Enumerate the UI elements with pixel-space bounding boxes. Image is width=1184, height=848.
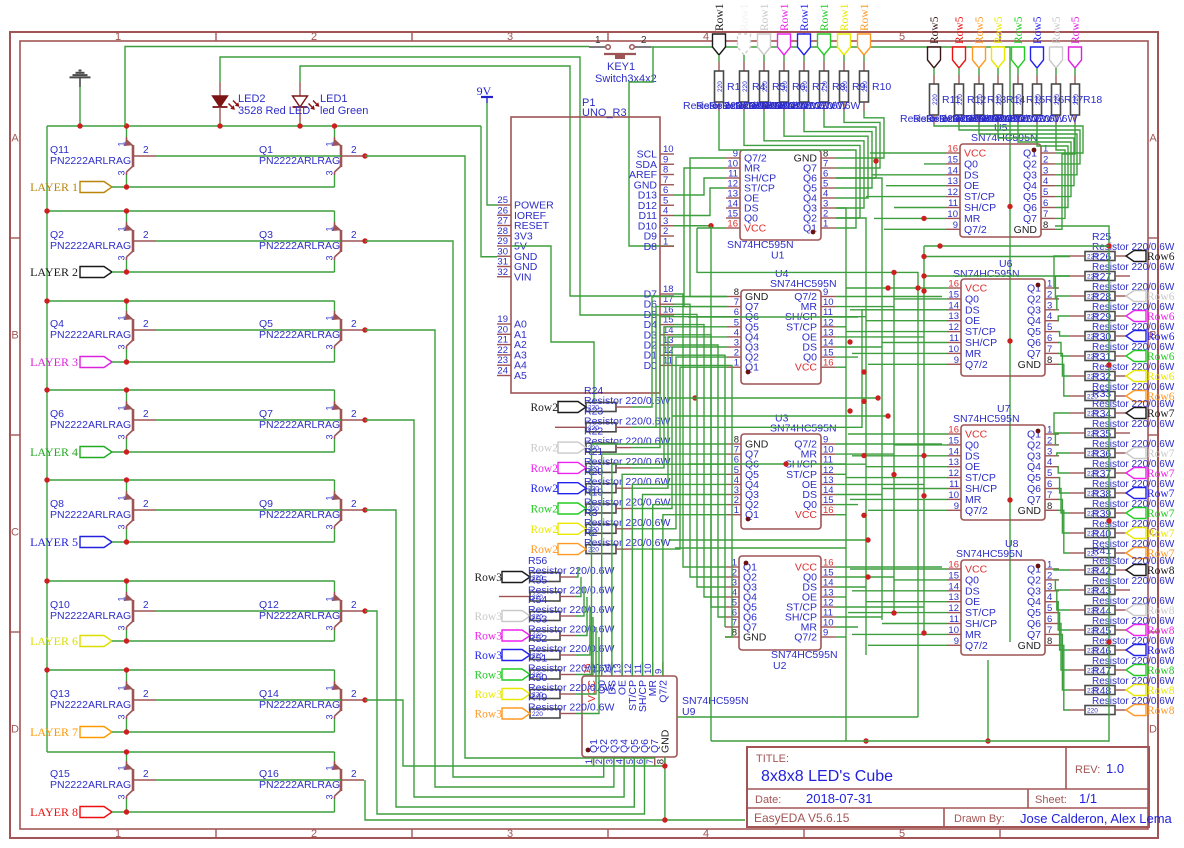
- svg-text:REV:: REV:: [1075, 764, 1100, 776]
- svg-text:1.0: 1.0: [1106, 761, 1124, 776]
- svg-text:220: 220: [762, 81, 769, 92]
- svg-text:VCC: VCC: [795, 362, 818, 374]
- svg-text:3: 3: [117, 170, 127, 175]
- svg-text:U9: U9: [682, 706, 696, 718]
- svg-text:PN2222ARLRAG: PN2222ARLRAG: [50, 779, 131, 791]
- svg-text:Row3: Row3: [475, 611, 503, 623]
- svg-text:8: 8: [1047, 636, 1052, 647]
- svg-text:12: 12: [947, 187, 958, 198]
- svg-text:VIN: VIN: [514, 271, 532, 283]
- svg-text:220: 220: [842, 81, 849, 92]
- svg-text:1: 1: [325, 226, 335, 231]
- svg-text:LAYER 2: LAYER 2: [30, 265, 78, 279]
- svg-text:Q7/2: Q7/2: [965, 640, 988, 652]
- svg-text:PN2222ARLRAG: PN2222ARLRAG: [50, 240, 131, 252]
- svg-text:PN2222ARLRAG: PN2222ARLRAG: [259, 240, 340, 252]
- svg-text:GND: GND: [1018, 640, 1042, 652]
- svg-text:2: 2: [351, 769, 357, 780]
- svg-text:Row2: Row2: [531, 483, 559, 495]
- svg-text:3528 Red LED: 3528 Red LED: [238, 105, 310, 117]
- svg-text:PN2222ARLRAG: PN2222ARLRAG: [259, 610, 340, 622]
- svg-text:Row3: Row3: [475, 572, 503, 584]
- svg-text:Row3: Row3: [475, 650, 503, 662]
- svg-text:9: 9: [823, 628, 828, 639]
- svg-text:PN2222ARLRAG: PN2222ARLRAG: [50, 610, 131, 622]
- svg-text:3: 3: [325, 625, 335, 630]
- svg-text:7: 7: [1047, 625, 1052, 636]
- svg-text:2: 2: [351, 409, 357, 420]
- svg-text:VCC: VCC: [744, 223, 767, 235]
- svg-text:PN2222ARLRAG: PN2222ARLRAG: [50, 509, 131, 521]
- svg-text:A: A: [1149, 133, 1157, 145]
- svg-text:Q7/2: Q7/2: [657, 680, 669, 703]
- svg-text:Row1: Row1: [819, 3, 831, 31]
- svg-text:1: 1: [117, 405, 127, 410]
- svg-text:PN2222ARLRAG: PN2222ARLRAG: [50, 329, 131, 341]
- svg-text:U2: U2: [773, 660, 787, 672]
- svg-text:1: 1: [117, 685, 127, 690]
- svg-text:Sheet:: Sheet:: [1035, 794, 1067, 806]
- svg-text:Row2: Row2: [531, 443, 559, 455]
- svg-text:220: 220: [742, 81, 749, 92]
- svg-text:PN2222ARLRAG: PN2222ARLRAG: [50, 699, 131, 711]
- svg-text:2: 2: [641, 35, 647, 46]
- svg-text:U1: U1: [771, 250, 785, 262]
- svg-text:2: 2: [143, 319, 149, 330]
- svg-text:3: 3: [117, 625, 127, 630]
- svg-text:12: 12: [948, 603, 959, 614]
- svg-text:PN2222ARLRAG: PN2222ARLRAG: [259, 419, 340, 431]
- svg-text:Row1: Row1: [839, 3, 851, 31]
- svg-text:Q7/2: Q7/2: [794, 632, 817, 644]
- svg-text:2: 2: [1047, 570, 1052, 581]
- svg-text:Jose Calderon, Alex Lema: Jose Calderon, Alex Lema: [1020, 811, 1173, 826]
- svg-text:LAYER 1: LAYER 1: [30, 180, 78, 194]
- svg-text:1: 1: [734, 505, 739, 516]
- svg-text:1: 1: [117, 315, 127, 320]
- svg-text:Row3: Row3: [475, 670, 503, 682]
- svg-text:1: 1: [325, 596, 335, 601]
- svg-text:14: 14: [948, 300, 959, 311]
- svg-text:3: 3: [325, 794, 335, 799]
- svg-text:9: 9: [954, 636, 959, 647]
- svg-text:3: 3: [507, 828, 513, 840]
- svg-text:2: 2: [143, 769, 149, 780]
- svg-text:16: 16: [948, 425, 959, 436]
- svg-text:5: 5: [1047, 603, 1052, 614]
- svg-text:1: 1: [1043, 144, 1048, 155]
- svg-text:220: 220: [782, 81, 789, 92]
- svg-text:3: 3: [1047, 446, 1052, 457]
- svg-text:8: 8: [1047, 501, 1052, 512]
- svg-text:13: 13: [947, 176, 958, 187]
- svg-text:2: 2: [351, 600, 357, 611]
- svg-text:1: 1: [115, 31, 121, 43]
- svg-text:U4: U4: [775, 268, 789, 280]
- svg-text:Row5: Row5: [1070, 16, 1082, 44]
- svg-text:LAYER 4: LAYER 4: [30, 445, 78, 459]
- svg-text:220: 220: [1035, 94, 1042, 105]
- svg-text:10: 10: [948, 490, 959, 501]
- svg-text:220: 220: [1087, 708, 1098, 715]
- svg-text:1: 1: [1047, 425, 1052, 436]
- svg-text:1: 1: [325, 495, 335, 500]
- svg-text:220: 220: [1054, 94, 1061, 105]
- svg-text:3: 3: [117, 794, 127, 799]
- svg-text:8x8x8 LED's Cube: 8x8x8 LED's Cube: [761, 768, 893, 785]
- svg-text:1: 1: [117, 596, 127, 601]
- svg-text:16: 16: [948, 279, 959, 290]
- svg-text:220: 220: [822, 81, 829, 92]
- svg-text:3: 3: [325, 344, 335, 349]
- svg-text:220: 220: [862, 81, 869, 92]
- svg-text:Q7/2: Q7/2: [964, 224, 987, 236]
- svg-text:8: 8: [1047, 355, 1052, 366]
- svg-text:1/1: 1/1: [1079, 791, 1097, 806]
- svg-text:2: 2: [143, 499, 149, 510]
- svg-text:9: 9: [954, 355, 959, 366]
- svg-text:Q7/2: Q7/2: [965, 505, 988, 517]
- svg-text:Row8: Row8: [1147, 705, 1175, 717]
- svg-text:6: 6: [1047, 614, 1052, 625]
- svg-text:5: 5: [1043, 187, 1048, 198]
- svg-text:D0: D0: [644, 360, 658, 372]
- svg-text:Date:: Date:: [755, 794, 781, 806]
- svg-text:PN2222ARLRAG: PN2222ARLRAG: [259, 699, 340, 711]
- svg-text:1: 1: [325, 765, 335, 770]
- svg-text:Row1: Row1: [714, 3, 726, 31]
- svg-text:11: 11: [949, 479, 959, 490]
- svg-text:2: 2: [143, 600, 149, 611]
- svg-text:32: 32: [497, 267, 508, 278]
- svg-text:LAYER 6: LAYER 6: [30, 634, 78, 648]
- svg-text:11: 11: [949, 614, 959, 625]
- svg-text:C: C: [11, 527, 19, 539]
- svg-text:7: 7: [1047, 344, 1052, 355]
- svg-text:A: A: [11, 133, 19, 145]
- svg-text:Row1: Row1: [859, 3, 871, 31]
- svg-text:1: 1: [117, 495, 127, 500]
- svg-text:4: 4: [1043, 176, 1048, 187]
- svg-text:2: 2: [1043, 154, 1048, 165]
- svg-text:Row3: Row3: [475, 689, 503, 701]
- svg-text:2: 2: [311, 828, 317, 840]
- svg-text:A5: A5: [514, 370, 527, 382]
- svg-text:GND: GND: [1018, 359, 1042, 371]
- svg-text:3: 3: [117, 434, 127, 439]
- svg-text:1: 1: [117, 226, 127, 231]
- svg-text:3: 3: [1043, 165, 1048, 176]
- svg-text:U6: U6: [999, 258, 1013, 270]
- svg-text:2: 2: [351, 499, 357, 510]
- svg-text:4: 4: [703, 31, 709, 43]
- svg-text:5: 5: [899, 31, 905, 43]
- svg-text:2: 2: [143, 230, 149, 241]
- svg-text:2: 2: [351, 230, 357, 241]
- svg-text:9: 9: [954, 501, 959, 512]
- svg-text:1: 1: [117, 141, 127, 146]
- svg-text:1: 1: [734, 358, 739, 369]
- svg-text:Row5: Row5: [1051, 16, 1063, 44]
- svg-text:9: 9: [953, 220, 958, 231]
- svg-text:1: 1: [325, 405, 335, 410]
- svg-text:UNO_R3: UNO_R3: [582, 107, 627, 119]
- svg-text:15: 15: [948, 435, 959, 446]
- svg-text:Resistor 220/0.6W: Resistor 220/0.6W: [528, 702, 614, 714]
- svg-text:2: 2: [351, 689, 357, 700]
- svg-text:GND: GND: [1014, 224, 1038, 236]
- svg-text:13: 13: [948, 311, 959, 322]
- svg-text:220: 220: [996, 94, 1003, 105]
- svg-text:8: 8: [1043, 220, 1048, 231]
- svg-text:GND: GND: [743, 632, 767, 644]
- svg-text:6: 6: [1047, 479, 1052, 490]
- svg-text:3: 3: [325, 255, 335, 260]
- svg-text:Row1: Row1: [799, 3, 811, 31]
- svg-text:Row1: Row1: [759, 3, 771, 31]
- svg-text:220: 220: [717, 81, 724, 92]
- svg-text:LAYER 3: LAYER 3: [30, 355, 78, 369]
- svg-text:Resistor 220/0.6W: Resistor 220/0.6W: [584, 537, 670, 549]
- svg-text:12: 12: [948, 468, 959, 479]
- svg-text:R18: R18: [1083, 94, 1102, 106]
- svg-text:5: 5: [1047, 322, 1052, 333]
- svg-text:2: 2: [143, 409, 149, 420]
- svg-text:B: B: [11, 330, 18, 342]
- svg-text:Row1: Row1: [739, 3, 751, 31]
- svg-text:1: 1: [117, 765, 127, 770]
- svg-text:Row5: Row5: [954, 16, 966, 44]
- svg-text:D: D: [11, 724, 19, 736]
- svg-text:2: 2: [143, 145, 149, 156]
- svg-text:LAYER 7: LAYER 7: [30, 725, 78, 739]
- svg-text:Resistor 220/0.6W: Resistor 220/0.6W: [991, 113, 1077, 125]
- svg-text:Row1: Row1: [779, 3, 791, 31]
- svg-text:U8: U8: [1005, 538, 1019, 550]
- svg-text:1: 1: [115, 828, 121, 840]
- svg-text:Row2: Row2: [531, 524, 559, 536]
- svg-text:1: 1: [823, 219, 828, 230]
- svg-text:Switch3x4x2: Switch3x4x2: [595, 73, 657, 85]
- svg-text:15: 15: [948, 289, 959, 300]
- svg-text:2: 2: [351, 145, 357, 156]
- svg-text:LED1: LED1: [320, 93, 348, 105]
- svg-text:24: 24: [497, 366, 508, 377]
- svg-text:7: 7: [1043, 209, 1048, 220]
- svg-text:2: 2: [311, 31, 317, 43]
- svg-text:KEY1: KEY1: [607, 61, 635, 73]
- svg-text:220: 220: [1073, 94, 1080, 105]
- svg-text:3: 3: [507, 31, 513, 43]
- svg-text:14: 14: [948, 446, 959, 457]
- svg-text:3: 3: [325, 434, 335, 439]
- svg-text:5: 5: [1047, 468, 1052, 479]
- svg-text:15: 15: [948, 570, 959, 581]
- svg-text:Row2: Row2: [531, 504, 559, 516]
- svg-text:13: 13: [948, 457, 959, 468]
- svg-text:PN2222ARLRAG: PN2222ARLRAG: [259, 155, 340, 167]
- svg-text:GND: GND: [1018, 505, 1042, 517]
- svg-text:PN2222ARLRAG: PN2222ARLRAG: [259, 509, 340, 521]
- svg-text:16: 16: [947, 144, 958, 155]
- svg-text:10: 10: [948, 625, 959, 636]
- svg-text:2: 2: [143, 689, 149, 700]
- svg-text:16: 16: [823, 505, 834, 516]
- svg-text:4: 4: [703, 828, 709, 840]
- svg-text:U3: U3: [775, 413, 789, 425]
- svg-text:4: 4: [1047, 311, 1052, 322]
- svg-text:Q7/2: Q7/2: [965, 359, 988, 371]
- svg-text:3: 3: [117, 344, 127, 349]
- svg-text:VCC: VCC: [795, 509, 818, 521]
- svg-text:Row5: Row5: [1032, 16, 1044, 44]
- svg-text:R10: R10: [872, 81, 891, 93]
- svg-text:Row5: Row5: [974, 16, 986, 44]
- svg-text:6: 6: [1047, 333, 1052, 344]
- svg-text:10: 10: [947, 209, 958, 220]
- svg-text:3: 3: [117, 524, 127, 529]
- svg-text:11: 11: [948, 198, 958, 209]
- svg-text:2: 2: [1047, 435, 1052, 446]
- svg-text:PN2222ARLRAG: PN2222ARLRAG: [259, 329, 340, 341]
- svg-text:1: 1: [325, 141, 335, 146]
- svg-text:220: 220: [957, 94, 964, 105]
- svg-text:16: 16: [823, 358, 834, 369]
- svg-text:3: 3: [117, 714, 127, 719]
- svg-text:Row5: Row5: [1013, 16, 1025, 44]
- svg-text:6: 6: [1043, 198, 1048, 209]
- svg-text:1: 1: [325, 315, 335, 320]
- svg-text:GND: GND: [659, 729, 671, 753]
- svg-text:11: 11: [949, 333, 959, 344]
- svg-text:LAYER 5: LAYER 5: [30, 535, 78, 549]
- svg-text:Row2: Row2: [531, 463, 559, 475]
- svg-text:12: 12: [948, 322, 959, 333]
- svg-text:LAYER 8: LAYER 8: [30, 805, 78, 819]
- svg-text:1: 1: [1047, 279, 1052, 290]
- svg-text:2: 2: [1047, 289, 1052, 300]
- svg-text:LED2: LED2: [238, 93, 266, 105]
- svg-text:3: 3: [325, 714, 335, 719]
- svg-text:4: 4: [1047, 457, 1052, 468]
- svg-text:1: 1: [595, 35, 601, 46]
- svg-text:Row5: Row5: [993, 16, 1005, 44]
- svg-text:U7: U7: [997, 403, 1011, 415]
- svg-text:2018-07-31: 2018-07-31: [806, 791, 873, 806]
- svg-text:16: 16: [727, 219, 738, 230]
- svg-text:1: 1: [325, 685, 335, 690]
- svg-text:3: 3: [1047, 581, 1052, 592]
- svg-text:led Green: led Green: [320, 105, 368, 117]
- svg-text:PN2222ARLRAG: PN2222ARLRAG: [50, 419, 131, 431]
- svg-text:Row3: Row3: [475, 709, 503, 721]
- svg-text:3: 3: [117, 255, 127, 260]
- svg-text:D: D: [1149, 724, 1157, 736]
- svg-text:3: 3: [325, 170, 335, 175]
- svg-text:Resistor 220/0.6W: Resistor 220/0.6W: [774, 100, 860, 112]
- svg-text:220: 220: [932, 94, 939, 105]
- svg-text:PN2222ARLRAG: PN2222ARLRAG: [50, 155, 131, 167]
- svg-text:3: 3: [325, 524, 335, 529]
- svg-text:Row3: Row3: [475, 631, 503, 643]
- svg-text:14: 14: [948, 581, 959, 592]
- svg-text:R1: R1: [727, 81, 741, 93]
- svg-text:EasyEDA V5.6.15: EasyEDA V5.6.15: [754, 811, 850, 825]
- svg-text:TITLE:: TITLE:: [756, 753, 789, 765]
- svg-text:15: 15: [947, 154, 958, 165]
- svg-text:5: 5: [899, 828, 905, 840]
- svg-text:D8: D8: [644, 241, 658, 253]
- svg-text:4: 4: [1047, 592, 1052, 603]
- svg-text:16: 16: [948, 560, 959, 571]
- svg-text:2: 2: [351, 319, 357, 330]
- svg-text:Row2: Row2: [531, 402, 559, 414]
- svg-text:Drawn By:: Drawn By:: [954, 813, 1005, 825]
- svg-text:220: 220: [1016, 94, 1023, 105]
- svg-text:Row5: Row5: [929, 16, 941, 44]
- svg-text:1: 1: [1047, 560, 1052, 571]
- svg-text:220: 220: [802, 81, 809, 92]
- svg-text:10: 10: [948, 344, 959, 355]
- svg-text:14: 14: [947, 165, 958, 176]
- svg-text:1: 1: [663, 236, 668, 247]
- svg-text:3: 3: [1047, 300, 1052, 311]
- svg-text:PN2222ARLRAG: PN2222ARLRAG: [259, 779, 340, 791]
- svg-text:220: 220: [977, 94, 984, 105]
- svg-text:13: 13: [948, 592, 959, 603]
- svg-text:7: 7: [1047, 490, 1052, 501]
